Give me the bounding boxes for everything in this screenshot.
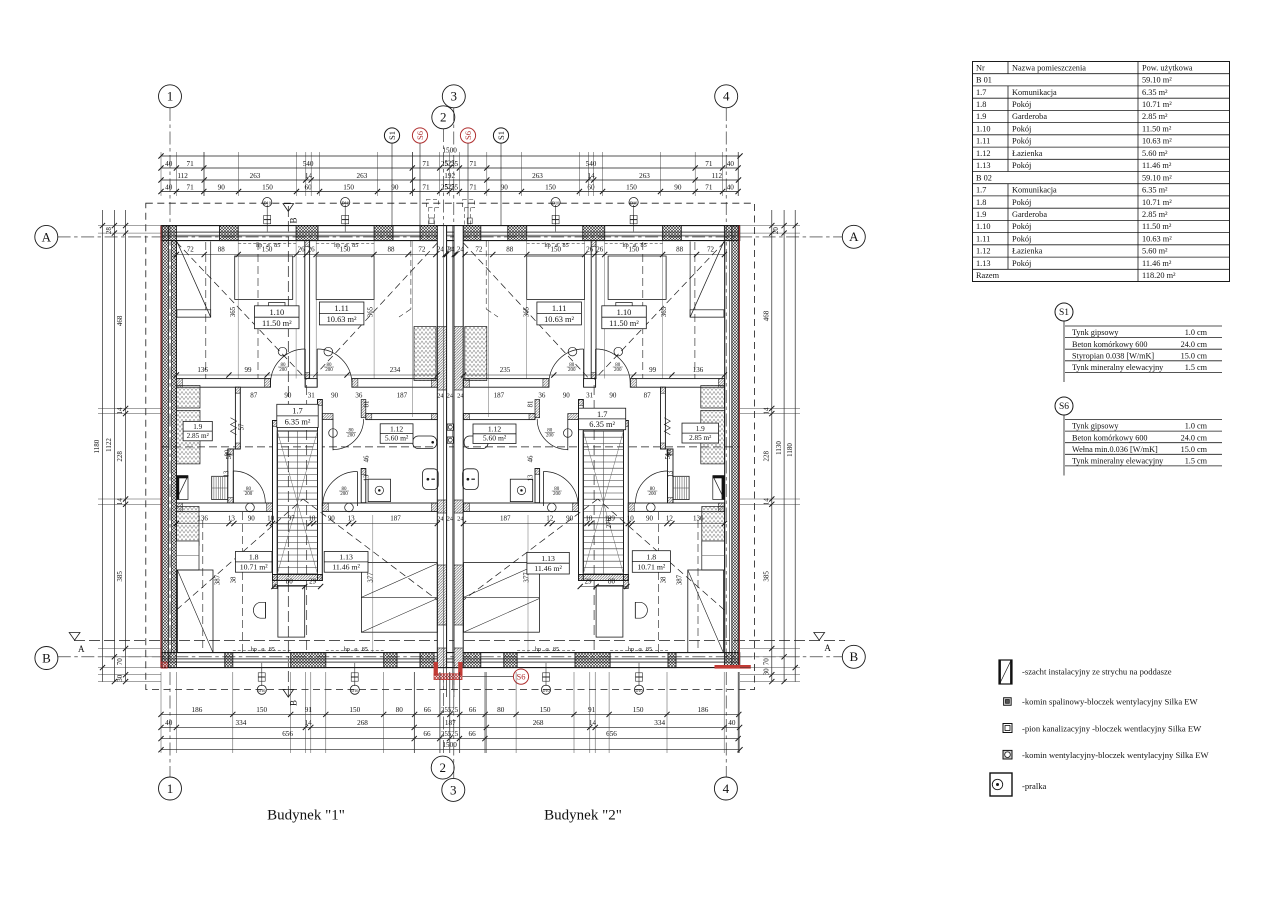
svg-text:24.0 cm: 24.0 cm	[1181, 340, 1208, 349]
axis bubble A left	[35, 225, 58, 248]
svg-text:4: 4	[723, 89, 730, 104]
svg-text:S6: S6	[415, 131, 425, 140]
svg-text:51: 51	[665, 453, 672, 460]
svg-text:71: 71	[187, 160, 195, 168]
svg-text:88: 88	[506, 246, 514, 254]
svg-text:Budynek "2": Budynek "2"	[544, 808, 622, 824]
axis bubble 4 bottom	[714, 777, 737, 800]
svg-text:B: B	[849, 649, 858, 664]
roof hip dashed diagonals upper	[594, 242, 724, 380]
svg-text:3: 3	[451, 89, 458, 104]
svg-text:70: 70	[116, 658, 124, 666]
svg-text:90: 90	[391, 184, 399, 192]
svg-text:150: 150	[545, 184, 556, 192]
svg-text:81: 81	[527, 401, 534, 408]
right dimension chains	[771, 210, 773, 682]
svg-text:51: 51	[226, 453, 233, 460]
svg-text:387: 387	[676, 574, 683, 585]
svg-text:Tynk gipsowy: Tynk gipsowy	[1072, 328, 1119, 337]
svg-text:1.7: 1.7	[976, 186, 986, 195]
svg-text:150: 150	[343, 184, 354, 192]
svg-text:11.46 m²: 11.46 m²	[1142, 259, 1172, 268]
svg-text:263: 263	[639, 172, 650, 180]
section marker S1 at top x=501	[493, 128, 508, 143]
svg-text:276: 276	[606, 517, 613, 528]
svg-text:192: 192	[444, 172, 455, 180]
svg-text:235: 235	[500, 366, 511, 374]
svg-text:24: 24	[437, 393, 444, 400]
svg-text:1.9: 1.9	[193, 423, 202, 431]
svg-text:1.10: 1.10	[617, 308, 632, 317]
axis bubble B left	[35, 647, 58, 670]
bottom dimension chain row 2	[161, 726, 740, 728]
svg-text:1130: 1130	[775, 441, 783, 455]
svg-text:1.13: 1.13	[541, 554, 555, 563]
svg-text:1.5 cm: 1.5 cm	[1185, 363, 1208, 372]
svg-text:57: 57	[239, 423, 246, 430]
svg-text:13: 13	[527, 474, 534, 481]
svg-text:200: 200	[553, 492, 561, 497]
svg-text:A: A	[824, 643, 831, 653]
room label 1.12 unit1	[380, 424, 413, 444]
svg-text:D10: D10	[630, 200, 637, 205]
svg-text:136: 136	[197, 366, 208, 374]
svg-text:80: 80	[286, 578, 294, 586]
legend washer icon	[990, 773, 1012, 796]
svg-text:1.8: 1.8	[976, 198, 986, 207]
svg-text:D10: D10	[264, 200, 271, 205]
svg-text:B: B	[42, 650, 51, 665]
svg-text:11.50 m²: 11.50 m²	[1142, 222, 1172, 231]
svg-text:40: 40	[165, 184, 173, 192]
svg-text:1.7: 1.7	[597, 410, 607, 419]
roof edge dashed line left upper 2	[257, 242, 259, 378]
svg-text:S1: S1	[496, 131, 506, 140]
room label 1.7 unit1	[277, 404, 318, 427]
bathroom door	[332, 419, 334, 450]
svg-text:hp: hp	[535, 646, 541, 653]
svg-text:46: 46	[527, 455, 534, 462]
bottom dimension chain row 1	[161, 713, 739, 715]
bed lower middle room	[464, 563, 540, 633]
red wall mark bottom-right	[715, 665, 751, 669]
top dimension chain row 1500	[161, 155, 740, 157]
svg-text:263: 263	[250, 172, 261, 180]
wall niche block	[713, 476, 725, 500]
svg-text:hp: hp	[344, 646, 350, 653]
wall niche block	[177, 476, 189, 500]
svg-text:Pokój: Pokój	[1012, 222, 1031, 231]
svg-text:540: 540	[586, 160, 597, 168]
svg-text:72: 72	[707, 246, 715, 254]
svg-text:40: 40	[727, 184, 735, 192]
svg-text:Pokój: Pokój	[1012, 234, 1031, 243]
svg-text:2.85 m²: 2.85 m²	[689, 434, 711, 442]
svg-text:385: 385	[762, 571, 770, 582]
svg-text:10.71 m²: 10.71 m²	[1142, 198, 1172, 207]
washbasin	[413, 436, 437, 449]
svg-text:118.20 m²: 118.20 m²	[1142, 271, 1176, 280]
svg-text:10.63 m²: 10.63 m²	[327, 315, 357, 324]
svg-text:-komin spalinowy-bloczek wenty: -komin spalinowy-bloczek wentylacyjny Si…	[1022, 696, 1199, 706]
svg-text:11.50 m²: 11.50 m²	[609, 319, 639, 328]
garderoba wall upper	[235, 387, 240, 449]
svg-text:-pion kanalizacyjny -bloczek w: -pion kanalizacyjny -bloczek wentlacyjny…	[1022, 723, 1202, 733]
svg-text:D10: D10	[351, 688, 358, 693]
svg-text:15.0 cm: 15.0 cm	[1181, 445, 1208, 454]
svg-text:31: 31	[586, 392, 594, 400]
svg-text:11.50 m²: 11.50 m²	[1142, 124, 1172, 133]
svg-text:71: 71	[422, 160, 430, 168]
svg-text:1.13: 1.13	[976, 259, 991, 268]
svg-text:1122: 1122	[105, 438, 113, 452]
roof edge dashed line left upper	[205, 242, 207, 379]
svg-text:365: 365	[661, 306, 668, 317]
svg-text:2.85 m²: 2.85 m²	[187, 432, 209, 440]
bedroom-corridor wall	[630, 379, 724, 388]
svg-text:-pralka: -pralka	[1022, 781, 1047, 791]
svg-text:540: 540	[303, 160, 314, 168]
svg-text:Budynek "1": Budynek "1"	[267, 808, 345, 824]
svg-text:1.0 cm: 1.0 cm	[1185, 422, 1208, 431]
svg-text:hp: hp	[334, 242, 340, 249]
svg-text:365: 365	[524, 306, 531, 317]
room label 1.11 unit2	[537, 302, 582, 325]
svg-text:24.0 cm: 24.0 cm	[1181, 433, 1208, 442]
roof edge dashed line right upper 2	[642, 242, 644, 378]
svg-text:24: 24	[447, 516, 454, 523]
svg-text:S1: S1	[387, 131, 397, 140]
toilet	[463, 469, 479, 490]
stair shaft walls	[624, 421, 629, 581]
svg-text:1.13: 1.13	[339, 553, 353, 562]
svg-text:Tynk mineralny elewacyjny: Tynk mineralny elewacyjny	[1072, 457, 1164, 466]
svg-text:234: 234	[390, 366, 401, 374]
svg-text:Garderoba: Garderoba	[1012, 112, 1047, 121]
room label 1.8 unit2	[632, 551, 670, 573]
svg-text:5.60 m²: 5.60 m²	[385, 434, 409, 443]
svg-text:112: 112	[177, 172, 188, 180]
garderoba wall upper	[661, 387, 666, 449]
svg-text:D10: D10	[552, 200, 559, 205]
svg-text:10.63 m²: 10.63 m²	[1142, 234, 1172, 243]
room label 1.10 unit1	[255, 306, 300, 329]
svg-text:Beton komórkowy 600: Beton komórkowy 600	[1072, 340, 1148, 349]
svg-text:1.11: 1.11	[976, 234, 990, 243]
svg-text:187: 187	[445, 719, 456, 727]
svg-text:Garderoba: Garderoba	[1012, 210, 1047, 219]
svg-text:387: 387	[215, 574, 222, 585]
room label 1.11 unit1	[319, 302, 364, 325]
chimney shadow dashed lines	[410, 241, 412, 309]
svg-text:136: 136	[197, 515, 208, 523]
chair lower room	[634, 602, 636, 618]
svg-text:85: 85	[269, 646, 275, 653]
bedroom partition wall	[591, 241, 596, 379]
door to bedroom 2	[316, 349, 318, 387]
svg-text:385: 385	[116, 571, 124, 582]
svg-text:S6: S6	[1059, 402, 1069, 412]
stair walk line / ridge dashed line	[306, 385, 308, 655]
svg-text:150: 150	[256, 706, 267, 714]
window axis symbol bottom	[545, 663, 547, 686]
stair shaft walls	[273, 421, 278, 581]
svg-text:11.46 m²: 11.46 m²	[534, 564, 562, 573]
svg-text:1.13: 1.13	[976, 161, 991, 170]
door to bedroom 1	[304, 349, 306, 387]
desk bedroom 2	[316, 256, 374, 299]
svg-text:S1: S1	[1059, 308, 1069, 318]
svg-text:187: 187	[397, 392, 408, 400]
svg-text:200: 200	[568, 368, 576, 373]
svg-text:200: 200	[340, 492, 348, 497]
vent stack outline above roof right	[463, 200, 475, 208]
stair walk line / ridge dashed line	[593, 385, 595, 655]
bathroom wall bottom	[464, 503, 579, 511]
svg-text:1.12: 1.12	[976, 149, 991, 158]
svg-text:268: 268	[533, 719, 544, 727]
svg-text:1.12: 1.12	[976, 247, 991, 256]
svg-text:Tynk gipsowy: Tynk gipsowy	[1072, 422, 1119, 431]
svg-text:Komunikacja: Komunikacja	[1012, 88, 1057, 97]
svg-text:200: 200	[245, 492, 253, 497]
svg-text:Komunikacja: Komunikacja	[1012, 186, 1057, 195]
bed lower middle room	[361, 563, 437, 633]
door to lower room 2	[356, 472, 358, 507]
roof edge dashed line right upper	[694, 242, 696, 379]
chair bedroom 1	[616, 303, 632, 323]
desk lower room	[596, 585, 623, 637]
toilet	[423, 469, 439, 490]
axis bubble 3 bottom	[442, 778, 465, 801]
svg-text:1.7: 1.7	[292, 407, 302, 416]
svg-text:S6: S6	[463, 131, 473, 140]
svg-text:468: 468	[762, 310, 770, 321]
dresser lower room	[176, 541, 199, 570]
svg-text:187: 187	[500, 515, 511, 523]
window axis symbol bottom	[638, 663, 640, 686]
axis line A horizontal	[58, 236, 843, 238]
svg-text:525: 525	[444, 161, 455, 168]
axis bubble A right	[842, 225, 865, 248]
svg-text:29: 29	[309, 578, 317, 586]
svg-text:Wełna min.0.036 [W/mK]: Wełna min.0.036 [W/mK]	[1072, 445, 1158, 454]
bathroom top wall	[568, 414, 579, 420]
svg-text:1.0 cm: 1.0 cm	[1185, 328, 1208, 337]
svg-text:525: 525	[444, 184, 455, 191]
svg-text:13: 13	[667, 470, 674, 477]
section marker S6 at top x=420	[412, 128, 427, 143]
room label 1.9 unit2	[682, 423, 719, 443]
axis line 1 vertical	[169, 108, 171, 777]
svg-text:36: 36	[538, 392, 546, 400]
svg-text:5.60 m²: 5.60 m²	[1142, 247, 1168, 256]
roof hip dashed diagonals lower	[598, 499, 725, 610]
washbasin	[464, 436, 488, 449]
svg-text:150: 150	[540, 706, 551, 714]
door hinge symbols	[614, 347, 623, 356]
svg-text:1: 1	[167, 89, 174, 104]
svg-text:72: 72	[475, 246, 483, 254]
svg-text:1.11: 1.11	[334, 304, 348, 313]
svg-text:263: 263	[532, 172, 543, 180]
svg-text:14: 14	[116, 498, 124, 506]
room label 1.8 unit1	[235, 552, 272, 573]
svg-text:6.35 m²: 6.35 m²	[1142, 88, 1168, 97]
roof overhang dashed outline	[146, 203, 755, 689]
staircase treads	[583, 431, 623, 575]
wall assembly table S1	[1055, 303, 1073, 321]
svg-text:186: 186	[192, 706, 203, 714]
bed lower corner room	[177, 570, 213, 653]
svg-text:Łazienka: Łazienka	[1012, 149, 1043, 158]
red chimney base at centre bottom	[434, 662, 438, 676]
bathroom top wall	[322, 414, 333, 420]
svg-text:71: 71	[187, 184, 195, 192]
svg-text:B: B	[289, 700, 299, 706]
wardrobe hatched 2	[176, 410, 200, 464]
stair cross lines	[583, 431, 623, 574]
roof edge dashed line left lower	[202, 520, 204, 652]
svg-text:66: 66	[469, 706, 477, 714]
svg-text:31: 31	[308, 392, 316, 400]
svg-text:97: 97	[288, 515, 296, 523]
svg-text:200: 200	[546, 434, 554, 439]
svg-text:70: 70	[762, 658, 770, 666]
svg-text:-komin wentylacyjny-bloczek we: -komin wentylacyjny-bloczek wentylacyjny…	[1022, 750, 1210, 760]
svg-text:10.71 m²: 10.71 m²	[1142, 100, 1172, 109]
svg-text:90: 90	[646, 515, 654, 523]
corner closet	[177, 242, 211, 318]
bottom dimension chain row 1500	[161, 749, 740, 751]
svg-text:1.12: 1.12	[390, 424, 403, 433]
door to bedroom 2	[583, 349, 585, 387]
svg-text:hp: hp	[256, 242, 262, 249]
stair cross lines	[277, 431, 317, 574]
svg-text:377: 377	[367, 572, 374, 583]
chair bedroom 1	[269, 303, 285, 323]
svg-text:38: 38	[661, 576, 668, 583]
svg-text:228: 228	[762, 451, 770, 462]
svg-text:3: 3	[450, 782, 457, 797]
chimney flue symbols	[447, 424, 453, 430]
svg-text:71: 71	[470, 160, 478, 168]
svg-text:66: 66	[469, 730, 477, 738]
interior dims row mid-upper	[176, 374, 437, 376]
svg-text:334: 334	[236, 719, 247, 727]
room label 1.12 unit2	[473, 424, 516, 444]
svg-text:1500: 1500	[442, 147, 457, 155]
svg-text:S6: S6	[517, 672, 526, 682]
bedroom-corridor wall	[176, 379, 270, 388]
svg-text:85: 85	[553, 646, 559, 653]
roof edge dashed line right lower	[697, 520, 699, 652]
svg-text:10.63 m²: 10.63 m²	[544, 315, 574, 324]
roof hip dashed diagonals lower	[176, 499, 303, 610]
right exterior wall	[738, 226, 740, 668]
svg-text:30: 30	[762, 668, 770, 676]
svg-text:hp: hp	[251, 646, 257, 653]
svg-text:365: 365	[367, 306, 374, 317]
corner closet	[690, 242, 724, 318]
svg-text:80: 80	[608, 578, 616, 586]
svg-text:-szacht instalacyjny ze strych: -szacht instalacyjny ze strychu na podda…	[1022, 667, 1172, 677]
svg-text:13: 13	[364, 474, 371, 481]
window axis symbol bottom	[354, 663, 356, 686]
svg-text:13: 13	[224, 470, 231, 477]
desk bedroom 1	[608, 256, 666, 299]
svg-text:112: 112	[712, 172, 723, 180]
roof edge dashed line right lower 2	[658, 512, 660, 652]
svg-text:B 02: B 02	[976, 173, 992, 182]
svg-text:1.7: 1.7	[976, 88, 986, 97]
svg-text:40: 40	[728, 719, 736, 727]
window axis symbol top	[344, 205, 346, 232]
svg-text:Razem: Razem	[976, 271, 1000, 280]
top exterior wall	[161, 225, 740, 227]
legend shaft icon	[999, 660, 1012, 684]
svg-text:1.10: 1.10	[976, 222, 991, 231]
svg-text:186: 186	[698, 706, 709, 714]
axis bubble 4 top	[715, 85, 738, 108]
svg-text:268: 268	[357, 719, 368, 727]
legend sewage stack icon	[1003, 724, 1012, 733]
top dimension chain row 2	[161, 179, 739, 181]
radiator zigzag	[231, 418, 237, 435]
desk lower room	[278, 585, 305, 637]
svg-text:334: 334	[654, 719, 665, 727]
wardrobe at central wall	[414, 327, 436, 381]
red wall mark bottom-left	[161, 662, 167, 668]
wardrobe hatched 3	[176, 507, 199, 546]
bottom extension lines	[515, 672, 517, 753]
right extension lines	[740, 225, 800, 227]
svg-text:5.60 m²: 5.60 m²	[483, 434, 507, 443]
svg-text:87: 87	[250, 392, 258, 400]
svg-text:2: 2	[439, 760, 446, 775]
wardrobe hatched 1	[176, 386, 200, 409]
svg-text:11.50 m²: 11.50 m²	[262, 319, 292, 328]
svg-text:Łazienka: Łazienka	[1012, 247, 1043, 256]
svg-text:72: 72	[418, 246, 426, 254]
svg-text:40: 40	[165, 160, 173, 168]
svg-text:90: 90	[248, 515, 256, 523]
svg-text:1.5 cm: 1.5 cm	[1185, 457, 1208, 466]
svg-text:1.10: 1.10	[269, 308, 284, 317]
svg-text:B 01: B 01	[976, 76, 992, 85]
central double wall with chimney shaft	[437, 226, 446, 668]
section marker S1 at top x=392	[384, 128, 399, 143]
svg-text:187: 187	[390, 515, 401, 523]
top dimension chain row 1	[161, 167, 738, 169]
wardrobe hatched 2	[701, 410, 725, 464]
axis bubble 1 bottom	[159, 777, 182, 800]
svg-text:200: 200	[279, 368, 287, 373]
svg-text:200: 200	[649, 492, 657, 497]
legend vent chimney icon	[1003, 750, 1012, 759]
svg-text:10.71 m²: 10.71 m²	[240, 562, 269, 571]
svg-text:90: 90	[284, 392, 292, 400]
wardrobe hatched 1	[701, 386, 725, 409]
svg-text:1.11: 1.11	[552, 304, 566, 313]
svg-text:90: 90	[674, 184, 682, 192]
door to lower room 2	[542, 472, 544, 507]
svg-text:200: 200	[614, 368, 622, 373]
svg-text:D10: D10	[542, 688, 549, 693]
axis bubble 2 top	[432, 106, 455, 129]
svg-text:Pokój: Pokój	[1012, 124, 1031, 133]
svg-text:365: 365	[230, 306, 237, 317]
